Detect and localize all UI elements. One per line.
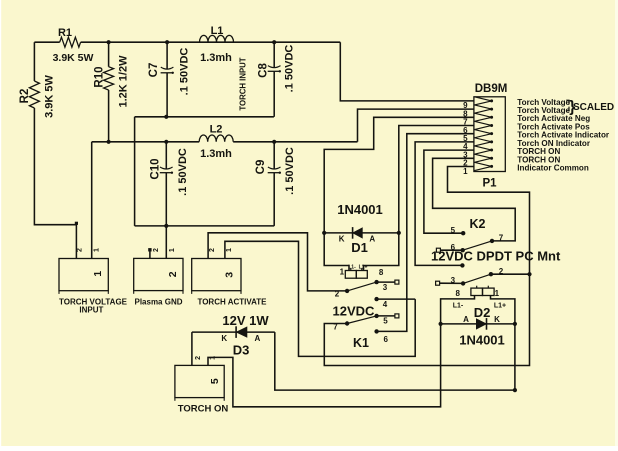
- svg-text:1: 1: [226, 248, 233, 252]
- svg-text:K: K: [221, 334, 227, 343]
- svg-text:C9: C9: [255, 160, 267, 175]
- svg-text:2: 2: [195, 356, 202, 360]
- svg-text:R1: R1: [58, 27, 72, 39]
- svg-text:D3: D3: [233, 343, 250, 358]
- svg-text:L1-: L1-: [348, 265, 356, 271]
- svg-text:3: 3: [223, 272, 235, 278]
- svg-text:5: 5: [209, 378, 221, 384]
- svg-text:L1-: L1-: [453, 303, 464, 310]
- svg-text:2: 2: [76, 248, 83, 252]
- svg-text:4: 4: [383, 300, 388, 309]
- svg-text:TORCH ACTIVATE: TORCH ACTIVATE: [197, 298, 267, 307]
- svg-text:2: 2: [335, 290, 340, 299]
- svg-text:1N4001: 1N4001: [337, 202, 383, 217]
- svg-text:3.9K 5W: 3.9K 5W: [53, 52, 94, 64]
- svg-text:8: 8: [379, 268, 384, 277]
- svg-text:.1 50VDC: .1 50VDC: [179, 48, 191, 96]
- svg-text:1: 1: [94, 248, 101, 252]
- svg-text:A: A: [255, 334, 261, 343]
- svg-text:K: K: [339, 235, 345, 244]
- svg-text:1: 1: [169, 248, 176, 252]
- svg-text:8: 8: [455, 289, 460, 298]
- svg-text:P1: P1: [482, 178, 497, 190]
- svg-text:3: 3: [383, 283, 388, 292]
- svg-text:C7: C7: [148, 63, 160, 78]
- svg-text:K1: K1: [353, 336, 369, 350]
- svg-text:1.3mh: 1.3mh: [200, 52, 232, 64]
- svg-text:C8: C8: [257, 63, 269, 78]
- svg-text:12VDC: 12VDC: [333, 304, 376, 319]
- svg-text:12V 1W: 12V 1W: [222, 313, 269, 328]
- svg-text:.1 50VDC: .1 50VDC: [177, 148, 189, 196]
- svg-text:1N4001: 1N4001: [459, 333, 505, 348]
- svg-text:D1: D1: [351, 240, 368, 255]
- svg-text:.1 50VDC: .1 50VDC: [284, 147, 296, 195]
- svg-text:TORCH INPUT: TORCH INPUT: [239, 57, 248, 110]
- svg-text:INPUT: INPUT: [79, 306, 103, 315]
- svg-text:Plasma GND: Plasma GND: [134, 298, 182, 307]
- svg-text:R10: R10: [93, 66, 105, 87]
- svg-text:2: 2: [499, 267, 504, 276]
- svg-text:7: 7: [333, 323, 338, 332]
- svg-text:5: 5: [383, 317, 388, 326]
- svg-text:1: 1: [210, 356, 217, 360]
- svg-text:A: A: [463, 315, 469, 324]
- svg-text:1: 1: [340, 268, 345, 277]
- svg-text:Indicator Common: Indicator Common: [517, 164, 589, 173]
- svg-text:A: A: [369, 235, 375, 244]
- svg-text:L2: L2: [210, 124, 223, 136]
- svg-text:TORCH ON: TORCH ON: [178, 404, 229, 415]
- svg-text:K: K: [494, 315, 500, 324]
- svg-text:L1: L1: [211, 25, 224, 37]
- svg-text:DB9M: DB9M: [475, 83, 508, 95]
- svg-text:C10: C10: [150, 158, 162, 179]
- svg-text:1.3mh: 1.3mh: [200, 148, 232, 160]
- svg-text:2: 2: [167, 271, 179, 277]
- svg-text:6: 6: [383, 335, 388, 344]
- svg-text:SCALED: SCALED: [573, 102, 614, 113]
- svg-text:K2: K2: [470, 217, 486, 231]
- svg-text:7: 7: [499, 234, 504, 243]
- svg-text:12VDC DPDT PC Mnt: 12VDC DPDT PC Mnt: [431, 249, 561, 264]
- svg-text:3: 3: [451, 276, 456, 285]
- svg-text:L1+: L1+: [359, 265, 368, 271]
- svg-text:D2: D2: [474, 305, 491, 320]
- svg-text:3.9K 5W: 3.9K 5W: [43, 74, 55, 117]
- svg-text:2: 2: [153, 248, 160, 252]
- svg-text:1: 1: [463, 167, 468, 176]
- svg-text:1.2K 1/2W: 1.2K 1/2W: [118, 55, 130, 108]
- svg-text:1: 1: [92, 271, 104, 277]
- svg-text:2: 2: [209, 248, 216, 252]
- svg-text:L1+: L1+: [494, 303, 506, 310]
- svg-text:R2: R2: [19, 89, 31, 104]
- svg-text:.1 50VDC: .1 50VDC: [283, 45, 295, 93]
- svg-text:5: 5: [451, 226, 456, 235]
- svg-text:1: 1: [495, 289, 500, 298]
